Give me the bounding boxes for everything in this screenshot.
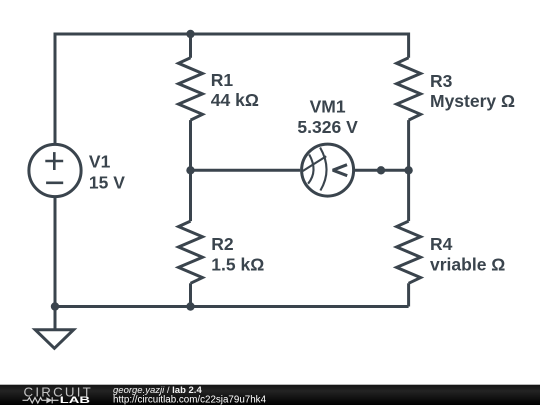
wire: top rail right half + R3 top lead [191,34,409,58]
footer bar [0,385,540,405]
svg-text:LAB: LAB [60,395,91,405]
wire: V1 bottom lead down to bottom rail [54,197,57,307]
svg-text:V1: V1 [89,152,111,172]
voltage source V1 body [29,144,81,196]
logo diode triangle [46,397,52,403]
svg-text:vriable Ω: vriable Ω [430,255,505,275]
wire: R3 bottom lead to right mid node [407,120,410,170]
resistor R1 [179,58,203,120]
svg-text:Mystery Ω: Mystery Ω [430,91,515,111]
wire: middle node to VM1 left terminal [191,169,301,172]
VM1 meter scale arc outer [320,148,326,191]
wire: left rail + top rail left half [55,34,191,144]
node: bottom left junction [51,302,59,310]
node: middle junction [186,166,194,174]
wire: VM1 right terminal to right rail [355,169,409,172]
ground [35,330,73,349]
node: top junction [186,30,194,38]
V1 plus sign [45,152,63,170]
svg-text:VM1: VM1 [310,96,346,116]
node: right mid junction [404,166,412,174]
svg-text:5.326 V: 5.326 V [297,117,358,137]
voltmeter VM1 body [302,144,354,196]
wire: ground stub [54,307,57,330]
wire: middle node to R2 top [189,170,192,221]
V1 minus sign [46,182,63,185]
svg-text:15 V: 15 V [89,173,125,193]
VM1 needle [302,156,326,171]
VM1 meter scale arc inner [308,155,313,184]
svg-text:R2: R2 [211,234,234,254]
wire: R1 top lead [189,34,192,58]
wire: R4 bottom lead to bottom rail [407,283,410,306]
node: bottom middle junction [186,302,194,310]
svg-text:R4: R4 [430,234,453,254]
resistor R2 [179,221,203,283]
svg-text:R1: R1 [211,70,234,90]
svg-text:http://circuitlab.com/c22sja79: http://circuitlab.com/c22sja79u7hk4 [113,395,267,405]
logo wire with resistor and diode [23,397,59,403]
svg-text:1.5 kΩ: 1.5 kΩ [211,254,264,274]
VM1 less-than mark [333,165,347,176]
wire: right mid node to R4 top [407,170,410,221]
resistor R4 [397,221,421,283]
node: VM1 output node [377,166,385,174]
wire: R1 bottom lead to middle node [189,120,192,170]
wire: R2 bottom lead [189,283,192,306]
svg-text:R3: R3 [430,71,453,91]
resistor R3 [397,58,421,120]
wire: bottom rail [55,305,409,308]
svg-text:44 kΩ: 44 kΩ [211,90,259,110]
